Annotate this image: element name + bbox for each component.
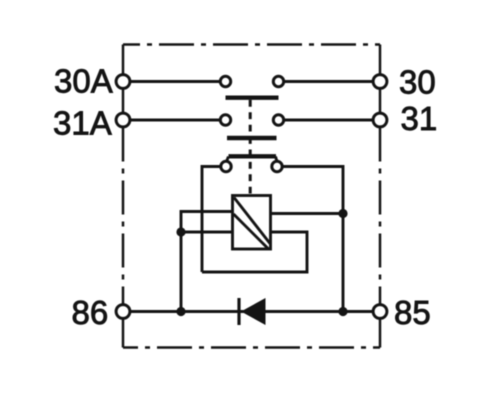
terminal 30 — [373, 75, 387, 89]
relay enclosure border top (dash-dot) — [123, 43, 380, 46]
wire coil loop bottom and right riser to coil — [202, 232, 307, 272]
junction 85 riser to coil right — [338, 209, 347, 218]
svg-text:30A: 30A — [54, 63, 113, 100]
svg-text:31A: 31A — [53, 104, 112, 141]
terminal 85 — [373, 305, 387, 319]
junction 85 wire — [338, 307, 347, 316]
contact point coil side left — [221, 161, 231, 171]
contact bridge bar K1 (30A-30) — [226, 95, 279, 99]
wire contact to 31 terminal — [285, 119, 373, 122]
actuator linkage (dashed) — [249, 100, 252, 194]
contact bridge bar K2 (31A-31) — [227, 136, 277, 140]
wire third contact right to 85 node riser — [284, 167, 344, 312]
wire 86 to 85 bottom — [131, 310, 373, 313]
contact point 31A side — [220, 115, 230, 125]
contact K3 right stub — [276, 157, 278, 162]
contact bridge bar K3 (coil circuit) — [229, 154, 277, 158]
diode V1 cathode bar — [237, 298, 240, 325]
wire coil right to 85 riser — [271, 212, 344, 215]
svg-text:86: 86 — [72, 294, 109, 331]
coil diagonal 2 — [234, 214, 269, 249]
svg-text:85: 85 — [394, 294, 431, 331]
contact point coil side right — [272, 161, 282, 171]
terminal 31A — [116, 113, 130, 127]
relay coil winding box — [233, 196, 271, 250]
relay enclosure border bottom (dash-dot) — [123, 346, 380, 349]
wire third contact left to coil loop (down leg) — [202, 167, 220, 273]
wire coil left lower to 86 riser — [181, 231, 233, 234]
wire 30A terminal to contact — [131, 80, 220, 83]
wire 31A terminal to contact — [131, 119, 220, 122]
relay enclosure border right (solid + dash-dot segments) — [379, 45, 382, 348]
junction 86 wire — [176, 307, 185, 316]
junction 86 riser to coil left — [176, 227, 185, 236]
contact K3 left stub — [227, 157, 229, 162]
contact point 30 side — [273, 76, 283, 86]
contact point 31 side — [273, 115, 283, 125]
terminal 86 — [116, 305, 130, 319]
svg-text:31: 31 — [401, 100, 438, 137]
contact point 30A side — [220, 76, 230, 86]
svg-text:30: 30 — [399, 64, 436, 101]
terminal 31 — [373, 113, 387, 127]
wire coil left upper to 86 riser — [181, 212, 233, 312]
wire contact to 30 terminal — [285, 80, 373, 83]
relay enclosure border left (solid + dash-dot segments) — [122, 45, 125, 348]
diode V1 triangle (pointing left) — [241, 298, 266, 325]
coil diagonal 1 — [234, 198, 270, 244]
terminal 30A — [116, 75, 130, 89]
